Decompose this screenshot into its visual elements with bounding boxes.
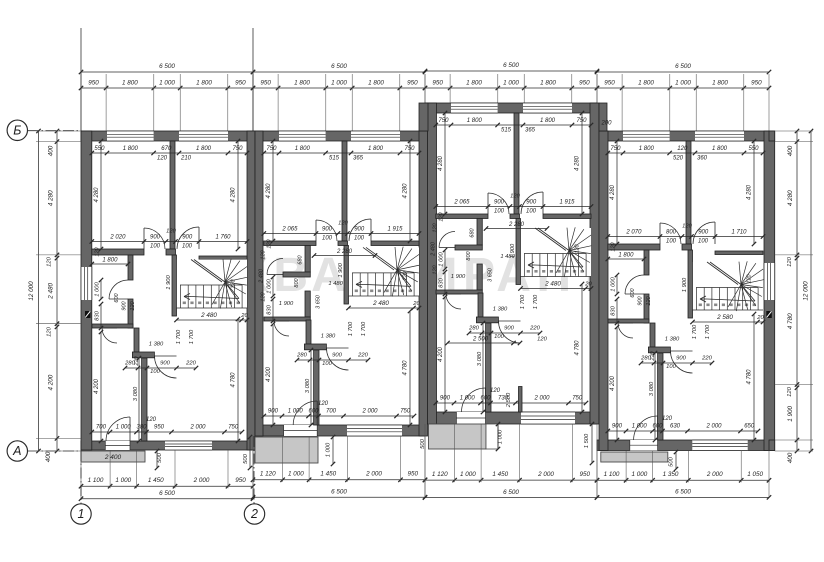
svg-text:1 800: 1 800 <box>196 80 212 87</box>
svg-text:120: 120 <box>439 211 445 221</box>
svg-text:1 800: 1 800 <box>618 253 634 259</box>
svg-text:1 900: 1 900 <box>451 274 466 280</box>
svg-text:120: 120 <box>611 241 617 251</box>
svg-text:2 000: 2 000 <box>189 425 206 431</box>
svg-text:2 000: 2 000 <box>365 471 382 478</box>
svg-text:4 280: 4 280 <box>610 184 616 200</box>
svg-text:2 000: 2 000 <box>705 424 722 430</box>
svg-text:1: 1 <box>78 507 85 521</box>
svg-text:1 800: 1 800 <box>466 80 482 87</box>
svg-text:750: 750 <box>572 396 583 402</box>
svg-text:20: 20 <box>240 313 248 319</box>
svg-text:6 500: 6 500 <box>331 488 347 495</box>
svg-text:Б: Б <box>13 124 21 138</box>
svg-text:120: 120 <box>682 224 692 230</box>
svg-text:120: 120 <box>787 386 793 396</box>
svg-text:1 000: 1 000 <box>95 281 101 296</box>
svg-text:500: 500 <box>420 438 426 448</box>
svg-text:1 900: 1 900 <box>510 243 516 258</box>
svg-text:120: 120 <box>433 222 439 232</box>
svg-text:1 800: 1 800 <box>123 146 139 152</box>
svg-text:120: 120 <box>318 401 329 407</box>
svg-text:6 500: 6 500 <box>159 490 175 497</box>
svg-text:6 500: 6 500 <box>159 63 175 70</box>
svg-text:1 800: 1 800 <box>638 80 654 87</box>
svg-text:630: 630 <box>670 424 681 430</box>
svg-text:600: 600 <box>630 287 636 297</box>
svg-text:1 760: 1 760 <box>215 235 231 241</box>
svg-text:2 070: 2 070 <box>625 230 642 236</box>
svg-text:1 000: 1 000 <box>503 80 519 87</box>
svg-text:6 500: 6 500 <box>675 63 691 70</box>
svg-text:2 000: 2 000 <box>537 471 554 478</box>
svg-text:120: 120 <box>662 416 673 422</box>
svg-text:120: 120 <box>537 337 547 343</box>
svg-text:1 915: 1 915 <box>387 227 403 233</box>
svg-text:365: 365 <box>525 128 536 134</box>
svg-text:20: 20 <box>756 315 764 321</box>
svg-text:2 480: 2 480 <box>372 300 389 307</box>
svg-text:1 000: 1 000 <box>331 80 347 87</box>
svg-text:1 000: 1 000 <box>288 409 304 415</box>
svg-text:120: 120 <box>95 246 101 256</box>
svg-text:4 280: 4 280 <box>403 183 409 199</box>
svg-text:100: 100 <box>494 209 505 215</box>
svg-text:950: 950 <box>751 80 762 87</box>
svg-text:2 500: 2 500 <box>472 337 489 343</box>
svg-text:1 700: 1 700 <box>361 321 367 336</box>
svg-text:220: 220 <box>529 326 540 332</box>
svg-text:1 800: 1 800 <box>540 80 556 87</box>
svg-text:680: 680 <box>470 227 476 237</box>
svg-text:400: 400 <box>787 145 794 156</box>
svg-text:280: 280 <box>640 356 651 362</box>
svg-text:1 380: 1 380 <box>493 307 508 313</box>
svg-text:6 500: 6 500 <box>503 62 519 69</box>
svg-text:750: 750 <box>400 409 411 415</box>
svg-text:2 400: 2 400 <box>104 454 122 461</box>
svg-text:220: 220 <box>185 361 196 367</box>
svg-text:1 380: 1 380 <box>321 334 336 340</box>
svg-text:1 800: 1 800 <box>712 80 728 87</box>
svg-text:900: 900 <box>504 326 514 332</box>
svg-text:4 280: 4 280 <box>94 187 100 203</box>
svg-text:4 280: 4 280 <box>575 155 581 171</box>
svg-text:950: 950 <box>408 471 419 478</box>
svg-text:900: 900 <box>122 300 128 310</box>
svg-text:1 900: 1 900 <box>682 277 688 292</box>
svg-text:900: 900 <box>182 235 193 241</box>
svg-text:950: 950 <box>407 80 418 87</box>
svg-text:100: 100 <box>494 334 504 340</box>
svg-text:120: 120 <box>146 417 157 423</box>
svg-text:2 000: 2 000 <box>533 396 550 402</box>
svg-text:4 780: 4 780 <box>403 360 409 376</box>
svg-text:1 000: 1 000 <box>439 251 445 266</box>
svg-text:1 800: 1 800 <box>540 118 556 124</box>
svg-text:750: 750 <box>266 146 277 152</box>
svg-text:2 580: 2 580 <box>716 314 733 321</box>
svg-text:4 280: 4 280 <box>231 187 237 203</box>
svg-text:120: 120 <box>47 326 53 336</box>
svg-text:100: 100 <box>182 244 193 250</box>
svg-text:750: 750 <box>610 146 621 152</box>
svg-text:1 500: 1 500 <box>584 433 590 448</box>
svg-text:1 800: 1 800 <box>102 258 118 264</box>
svg-text:120: 120 <box>403 270 409 280</box>
svg-text:220: 220 <box>357 353 368 359</box>
svg-text:500: 500 <box>669 456 675 466</box>
svg-text:830: 830 <box>267 304 273 314</box>
svg-text:1 050: 1 050 <box>747 471 763 478</box>
svg-text:1 450: 1 450 <box>492 471 508 478</box>
svg-text:4 280: 4 280 <box>266 183 272 199</box>
svg-text:210: 210 <box>180 156 192 162</box>
svg-text:120: 120 <box>261 249 267 259</box>
svg-text:1 900: 1 900 <box>787 406 794 422</box>
svg-text:4 280: 4 280 <box>787 190 794 206</box>
svg-text:2 480: 2 480 <box>544 281 561 288</box>
svg-text:1 710: 1 710 <box>731 230 747 236</box>
svg-text:100: 100 <box>354 236 365 242</box>
svg-text:120: 120 <box>338 221 348 227</box>
svg-text:1 000: 1 000 <box>675 80 691 87</box>
svg-text:120: 120 <box>677 146 688 152</box>
svg-text:650: 650 <box>744 424 755 430</box>
svg-text:120: 120 <box>166 229 176 235</box>
svg-text:100: 100 <box>526 209 537 215</box>
svg-text:3 080: 3 080 <box>305 378 311 393</box>
svg-text:900: 900 <box>698 230 709 236</box>
svg-text:800: 800 <box>466 250 472 260</box>
svg-text:900: 900 <box>322 227 333 233</box>
svg-text:1 000: 1 000 <box>116 425 132 431</box>
svg-text:4 280: 4 280 <box>747 184 753 200</box>
svg-text:280: 280 <box>468 326 479 332</box>
svg-text:1 380: 1 380 <box>149 342 164 348</box>
svg-text:4 280: 4 280 <box>438 155 444 171</box>
svg-text:6 500: 6 500 <box>331 63 347 70</box>
svg-text:1 380: 1 380 <box>665 337 680 343</box>
svg-text:1 700: 1 700 <box>189 329 195 344</box>
svg-text:1 000: 1 000 <box>288 471 304 478</box>
svg-text:520: 520 <box>673 156 684 162</box>
svg-text:220: 220 <box>650 350 656 361</box>
svg-text:950: 950 <box>604 80 615 87</box>
svg-text:1 000: 1 000 <box>460 396 476 402</box>
svg-text:120: 120 <box>787 256 793 266</box>
svg-text:2 000: 2 000 <box>706 471 723 478</box>
svg-text:1 120: 1 120 <box>432 471 448 478</box>
svg-text:2 480: 2 480 <box>200 312 217 319</box>
svg-text:1 100: 1 100 <box>604 471 620 478</box>
svg-text:1 000: 1 000 <box>611 276 617 291</box>
svg-text:1 800: 1 800 <box>639 146 655 152</box>
svg-text:3 650: 3 650 <box>488 267 494 282</box>
svg-text:120: 120 <box>747 273 753 283</box>
svg-text:1 800: 1 800 <box>295 146 311 152</box>
svg-text:2 065: 2 065 <box>453 200 470 206</box>
svg-text:550: 550 <box>94 146 105 152</box>
svg-text:950: 950 <box>88 80 99 87</box>
svg-text:800: 800 <box>666 230 677 236</box>
svg-text:2 065: 2 065 <box>281 227 298 233</box>
svg-text:400: 400 <box>48 145 55 156</box>
svg-text:600: 600 <box>114 292 120 302</box>
svg-text:950: 950 <box>580 471 591 478</box>
svg-text:2 280: 2 280 <box>508 222 525 228</box>
svg-text:4 200: 4 200 <box>438 346 444 362</box>
svg-text:500: 500 <box>243 453 249 463</box>
svg-text:2 480: 2 480 <box>431 241 437 257</box>
svg-text:750: 750 <box>228 425 239 431</box>
svg-text:1 800: 1 800 <box>294 80 310 87</box>
svg-text:2 280: 2 280 <box>336 249 353 255</box>
svg-text:120: 120 <box>261 291 267 301</box>
svg-text:120: 120 <box>510 194 520 200</box>
svg-text:100: 100 <box>150 244 161 250</box>
svg-text:900: 900 <box>354 227 365 233</box>
svg-text:2 480: 2 480 <box>48 283 55 300</box>
svg-text:1 800: 1 800 <box>368 80 384 87</box>
svg-text:1 700: 1 700 <box>705 324 711 339</box>
svg-text:365: 365 <box>353 156 364 162</box>
svg-text:2 480: 2 480 <box>259 268 265 284</box>
svg-text:1 700: 1 700 <box>533 294 539 309</box>
svg-text:120: 120 <box>231 278 237 288</box>
svg-text:120: 120 <box>433 264 439 274</box>
svg-text:515: 515 <box>329 156 340 162</box>
svg-text:830: 830 <box>611 305 617 315</box>
svg-text:600: 600 <box>308 409 319 415</box>
svg-text:1 900: 1 900 <box>338 262 344 277</box>
svg-text:20: 20 <box>584 282 592 288</box>
svg-text:2 000: 2 000 <box>361 409 378 415</box>
svg-text:1 000: 1 000 <box>115 477 131 484</box>
svg-text:670: 670 <box>161 146 172 152</box>
svg-text:6 500: 6 500 <box>503 489 519 496</box>
svg-text:950: 950 <box>579 80 590 87</box>
svg-text:950: 950 <box>154 425 165 431</box>
svg-text:280: 280 <box>296 353 307 359</box>
svg-text:1 900: 1 900 <box>166 274 172 289</box>
svg-text:220: 220 <box>134 355 140 366</box>
svg-text:1 000: 1 000 <box>460 471 476 478</box>
svg-text:4 200: 4 200 <box>48 374 55 390</box>
svg-text:12 000: 12 000 <box>28 281 35 301</box>
svg-text:900: 900 <box>494 200 505 206</box>
svg-text:4 280: 4 280 <box>48 190 55 206</box>
svg-text:2 500: 2 500 <box>506 392 512 408</box>
svg-text:1 800: 1 800 <box>122 80 138 87</box>
svg-text:400: 400 <box>787 452 794 463</box>
svg-text:220: 220 <box>701 356 712 362</box>
svg-text:1 000: 1 000 <box>498 429 504 444</box>
svg-text:120: 120 <box>130 300 136 310</box>
svg-text:1 915: 1 915 <box>559 200 575 206</box>
svg-text:100: 100 <box>666 239 677 245</box>
svg-text:1 000: 1 000 <box>632 471 648 478</box>
svg-text:680: 680 <box>298 254 304 264</box>
svg-text:3 080: 3 080 <box>133 386 139 401</box>
svg-text:1 000: 1 000 <box>267 278 273 293</box>
svg-text:100: 100 <box>322 361 332 367</box>
svg-text:2 020: 2 020 <box>109 235 126 241</box>
svg-text:1 120: 1 120 <box>260 471 276 478</box>
svg-text:1 450: 1 450 <box>320 471 336 478</box>
svg-text:3 650: 3 650 <box>316 294 322 309</box>
svg-text:2 000: 2 000 <box>193 477 210 484</box>
svg-text:3 080: 3 080 <box>477 351 483 366</box>
svg-text:4 200: 4 200 <box>266 366 272 382</box>
svg-text:120: 120 <box>575 243 581 253</box>
svg-text:1 000: 1 000 <box>159 80 175 87</box>
svg-text:3 080: 3 080 <box>649 381 655 396</box>
svg-text:200: 200 <box>600 121 612 127</box>
svg-text:120: 120 <box>47 256 53 266</box>
svg-text:800: 800 <box>294 277 300 287</box>
svg-text:1 800: 1 800 <box>196 146 212 152</box>
svg-text:1 450: 1 450 <box>148 477 164 484</box>
svg-text:900: 900 <box>160 361 170 367</box>
svg-text:280: 280 <box>124 361 135 367</box>
svg-text:100: 100 <box>150 369 160 375</box>
svg-text:1 100: 1 100 <box>88 477 104 484</box>
svg-text:950: 950 <box>432 80 443 87</box>
svg-text:380: 380 <box>136 425 147 431</box>
svg-text:120: 120 <box>490 388 501 394</box>
svg-text:360: 360 <box>697 156 708 162</box>
svg-text:4 780: 4 780 <box>575 340 581 356</box>
svg-text:20: 20 <box>412 301 420 307</box>
svg-text:4 780: 4 780 <box>231 372 237 388</box>
svg-text:100: 100 <box>698 239 709 245</box>
svg-text:515: 515 <box>501 128 512 134</box>
svg-text:120: 120 <box>267 238 273 248</box>
svg-text:А: А <box>12 444 21 458</box>
svg-text:900: 900 <box>332 353 342 359</box>
svg-text:1 700: 1 700 <box>176 329 182 344</box>
svg-text:600: 600 <box>652 424 663 430</box>
svg-text:500: 500 <box>157 452 163 462</box>
svg-text:100: 100 <box>666 364 676 370</box>
svg-text:830: 830 <box>439 277 445 287</box>
svg-text:700: 700 <box>326 409 337 415</box>
svg-text:6 500: 6 500 <box>675 489 691 496</box>
svg-text:600: 600 <box>480 396 491 402</box>
svg-text:1 700: 1 700 <box>348 321 354 336</box>
svg-text:1 000: 1 000 <box>632 424 648 430</box>
svg-text:900: 900 <box>526 200 537 206</box>
svg-text:4 780: 4 780 <box>747 369 753 385</box>
svg-text:2: 2 <box>250 507 258 521</box>
svg-text:1 700: 1 700 <box>520 294 526 309</box>
svg-text:1 700: 1 700 <box>692 324 698 339</box>
svg-text:1 000: 1 000 <box>326 442 332 457</box>
svg-text:900: 900 <box>150 235 161 241</box>
svg-text:12 000: 12 000 <box>803 281 810 301</box>
svg-text:900: 900 <box>676 356 686 362</box>
svg-text:1 480: 1 480 <box>328 281 343 287</box>
svg-text:750: 750 <box>438 118 449 124</box>
svg-text:4 200: 4 200 <box>94 378 100 394</box>
svg-text:1 900: 1 900 <box>279 301 294 307</box>
svg-text:830: 830 <box>95 310 101 320</box>
svg-text:4 780: 4 780 <box>787 313 794 329</box>
svg-text:120: 120 <box>157 156 168 162</box>
svg-text:4 200: 4 200 <box>610 375 616 391</box>
svg-text:900: 900 <box>638 295 644 305</box>
svg-text:120: 120 <box>646 295 652 305</box>
svg-text:1 800: 1 800 <box>712 146 728 152</box>
svg-text:950: 950 <box>235 477 246 484</box>
svg-text:1 800: 1 800 <box>368 146 384 152</box>
svg-text:1 800: 1 800 <box>467 118 483 124</box>
svg-text:1 350: 1 350 <box>663 471 679 478</box>
svg-text:950: 950 <box>260 80 271 87</box>
svg-text:100: 100 <box>322 236 333 242</box>
svg-text:400: 400 <box>45 451 52 462</box>
svg-text:950: 950 <box>235 80 246 87</box>
